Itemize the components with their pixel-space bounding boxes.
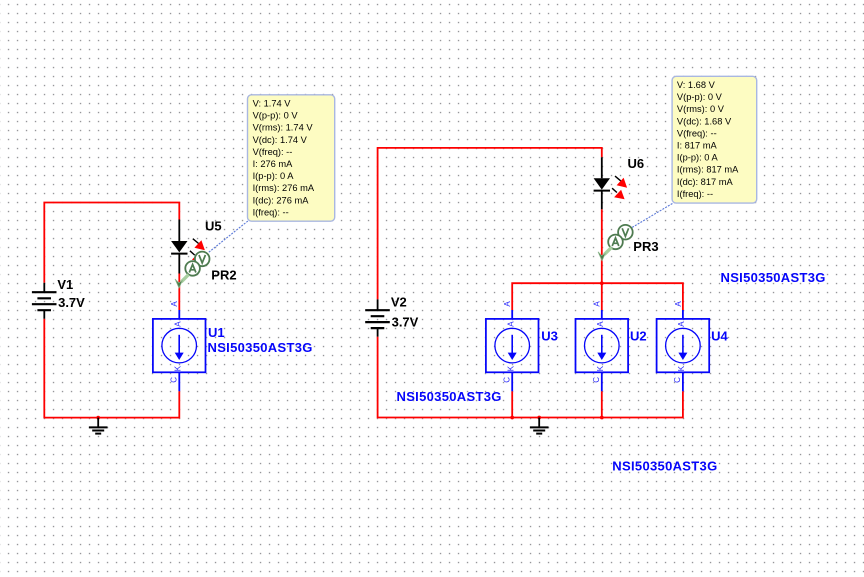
- svg-text:NSI50350AST3G: NSI50350AST3G: [612, 459, 717, 474]
- wire top bus U3-U2-U4: [512, 283, 683, 310]
- svg-text:I(dc): 276 mA: I(dc): 276 mA: [253, 195, 310, 205]
- wire U3 cathode to bus: [511, 391, 513, 417]
- svg-text:K: K: [174, 365, 183, 371]
- wire LED U5 cathode to U1 anode: [178, 274, 180, 311]
- svg-text:I(p-p): 0 A: I(p-p): 0 A: [253, 171, 295, 181]
- leader line PR3: [632, 204, 673, 228]
- current source U1: [153, 310, 206, 391]
- battery V2: [365, 299, 390, 336]
- LED U5: [171, 220, 205, 274]
- wire U2 cathode to bus: [601, 391, 603, 417]
- probe PR3: [598, 225, 633, 261]
- probe PR2: [175, 252, 210, 288]
- wire V2 bottom bus to U4: [378, 337, 683, 418]
- svg-text:I(rms): 817 mA: I(rms): 817 mA: [677, 165, 739, 175]
- svg-text:V: 1.68 V: V: 1.68 V: [677, 80, 716, 90]
- junction (top bus / LED U6): [600, 281, 604, 285]
- svg-text:K: K: [596, 365, 605, 371]
- LED U6: [594, 157, 628, 209]
- svg-text:3.7V: 3.7V: [58, 295, 85, 310]
- annotation box PR3 readings: [672, 76, 757, 203]
- svg-text:A: A: [596, 321, 605, 327]
- svg-text:I: 276 mA: I: 276 mA: [253, 159, 294, 169]
- svg-text:3.7V: 3.7V: [392, 315, 419, 330]
- battery V1: [32, 283, 57, 319]
- junction (U2 cathode / bottom bus): [600, 416, 604, 420]
- svg-text:C: C: [503, 377, 512, 383]
- svg-text:V(dc): 1.68 V: V(dc): 1.68 V: [677, 116, 732, 126]
- svg-text:A: A: [674, 301, 683, 307]
- svg-text:I(freq): --: I(freq): --: [253, 207, 289, 217]
- wire LED U6 cathode to top bus: [601, 209, 603, 283]
- svg-text:C: C: [592, 377, 601, 383]
- svg-text:NSI50350AST3G: NSI50350AST3G: [721, 270, 826, 285]
- svg-text:U5: U5: [205, 219, 222, 234]
- svg-text:K: K: [677, 365, 686, 371]
- svg-text:A: A: [593, 301, 602, 307]
- svg-text:C: C: [170, 377, 179, 383]
- svg-text:A: A: [174, 321, 183, 327]
- svg-text:V(freq): --: V(freq): --: [253, 147, 293, 157]
- svg-text:V(rms): 1.74 V: V(rms): 1.74 V: [253, 123, 314, 133]
- svg-text:U6: U6: [628, 156, 645, 171]
- wire U2 anode stub: [601, 283, 603, 310]
- junction (U3 cathode / bottom bus): [510, 416, 514, 420]
- svg-text:I(p-p): 0 A: I(p-p): 0 A: [677, 153, 719, 163]
- svg-text:I(rms): 276 mA: I(rms): 276 mA: [253, 183, 315, 193]
- svg-text:V(p-p): 0 V: V(p-p): 0 V: [677, 92, 723, 102]
- svg-text:PR3: PR3: [633, 239, 658, 254]
- svg-text:NSI50350AST3G: NSI50350AST3G: [208, 340, 313, 355]
- svg-text:C: C: [673, 377, 682, 383]
- svg-text:A: A: [503, 301, 512, 307]
- junction dot (left ground): [96, 416, 100, 420]
- svg-text:I: 817 mA: I: 817 mA: [677, 141, 718, 151]
- current source U4: [657, 310, 710, 391]
- svg-text:V(dc): 1.74 V: V(dc): 1.74 V: [253, 135, 308, 145]
- svg-text:U1: U1: [208, 325, 225, 340]
- svg-text:A: A: [506, 321, 515, 327]
- wire V1 top to LED U5: [44, 203, 179, 283]
- svg-text:V(p-p): 0 V: V(p-p): 0 V: [253, 111, 299, 121]
- svg-text:K: K: [506, 365, 515, 371]
- leader line PR2: [208, 221, 248, 253]
- svg-text:U2: U2: [630, 329, 647, 344]
- ground (right): [530, 418, 549, 434]
- svg-text:V(rms): 0 V: V(rms): 0 V: [677, 104, 725, 114]
- svg-text:V1: V1: [57, 277, 73, 292]
- svg-text:A: A: [170, 301, 179, 307]
- current source U2: [576, 310, 629, 391]
- svg-text:I(freq): --: I(freq): --: [677, 189, 713, 199]
- svg-text:A: A: [677, 321, 686, 327]
- junction (ground / bottom bus): [537, 416, 541, 420]
- svg-text:PR2: PR2: [211, 268, 236, 283]
- wire V2 top to LED U6: [378, 148, 602, 300]
- svg-text:I(dc): 817 mA: I(dc): 817 mA: [677, 177, 734, 187]
- svg-text:NSI50350AST3G: NSI50350AST3G: [397, 389, 502, 404]
- svg-text:V(freq): --: V(freq): --: [677, 128, 717, 138]
- wire V1 bottom to ground and U1: [44, 319, 179, 418]
- svg-text:V2: V2: [391, 295, 407, 310]
- annotation box PR2 readings: [248, 95, 335, 221]
- svg-text:U3: U3: [541, 329, 558, 344]
- current source U3: [486, 310, 539, 391]
- ground (left): [89, 418, 108, 434]
- svg-text:V: 1.74 V: V: 1.74 V: [253, 99, 292, 109]
- svg-text:U4: U4: [711, 329, 728, 344]
